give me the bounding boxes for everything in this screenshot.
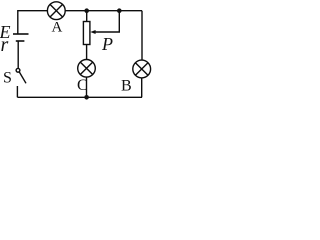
svg-text:C: C <box>77 77 88 94</box>
lamp B <box>133 60 151 78</box>
wire: below switch to bottom-left corner <box>16 86 18 97</box>
wire: battery to switch S <box>17 41 19 69</box>
svg-text:A: A <box>52 20 63 36</box>
switch S (pivot circle) <box>16 68 20 72</box>
wire: node at top down into rheostat P <box>86 11 88 22</box>
svg-text:B: B <box>121 78 132 95</box>
battery E,r (short plate) <box>16 40 25 42</box>
rheostat P (body) <box>83 22 90 45</box>
wire: lamp C to bottom junction <box>86 77 88 97</box>
junction dot: top node at rheostat branch <box>84 8 89 13</box>
junction dot: top node at wiper branch <box>117 8 122 13</box>
lamp A <box>47 2 65 20</box>
switch S (blade) <box>19 72 26 83</box>
wire: right side (top corner down to lamp B) <box>141 11 143 61</box>
svg-text:S: S <box>3 70 12 87</box>
wire: top side (lamp A to top-right corner) <box>65 10 142 12</box>
wire: bottom side <box>17 96 142 98</box>
wiper arrow of rheostat P <box>90 11 119 34</box>
battery E,r (long plate) <box>13 33 29 35</box>
lamp C <box>78 60 96 78</box>
svg-text:P: P <box>101 34 113 54</box>
wire: top side (left corner to lamp A) <box>18 11 48 34</box>
wire: lamp B to bottom wire <box>141 78 143 98</box>
wire: rheostat P to lamp C <box>86 45 88 60</box>
svg-text:r: r <box>1 34 9 56</box>
junction dot: bottom node below lamp C <box>84 95 89 100</box>
